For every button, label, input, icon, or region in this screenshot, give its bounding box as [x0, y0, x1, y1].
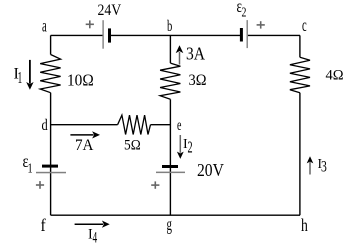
svg-text:f: f	[41, 215, 47, 235]
svg-text:2: 2	[188, 138, 193, 156]
svg-text:24V: 24V	[98, 2, 122, 19]
svg-text:d: d	[42, 117, 48, 135]
svg-text:3Ω: 3Ω	[189, 73, 207, 90]
svg-text:c: c	[302, 16, 307, 35]
svg-text:2: 2	[242, 5, 247, 20]
svg-text:4: 4	[93, 228, 98, 246]
svg-text:b: b	[167, 17, 172, 35]
svg-text:5Ω: 5Ω	[124, 137, 141, 154]
svg-text:7A: 7A	[75, 137, 94, 154]
svg-text:g: g	[167, 216, 172, 235]
svg-text:3A: 3A	[186, 43, 206, 63]
svg-text:1: 1	[18, 69, 23, 88]
svg-text:3: 3	[321, 158, 327, 176]
svg-text:10Ω: 10Ω	[67, 72, 94, 90]
svg-text:h: h	[301, 216, 308, 235]
svg-text:e: e	[177, 116, 182, 134]
svg-text:4Ω: 4Ω	[326, 67, 344, 83]
svg-text:a: a	[42, 17, 47, 36]
svg-text:20V: 20V	[197, 160, 224, 180]
svg-text:1: 1	[28, 160, 33, 176]
